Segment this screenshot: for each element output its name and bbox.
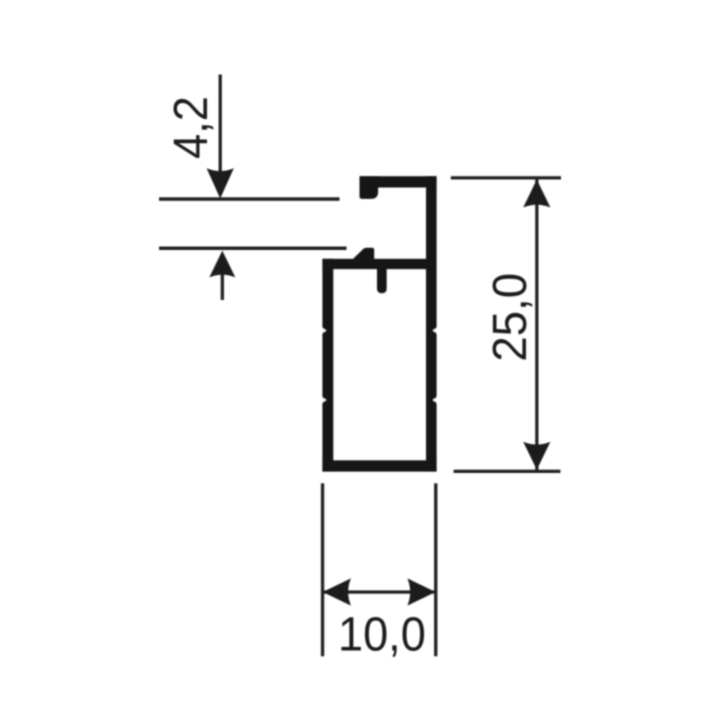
notch left wall lower — [321, 397, 326, 403]
dimension 25,0 line — [535, 179, 538, 470]
profile hook tab — [360, 176, 379, 199]
dimension 10,0 right extension line — [434, 483, 437, 656]
glass pane line upper — [159, 197, 340, 201]
notch right wall upper — [433, 328, 438, 334]
svg-text:10,0: 10,0 — [338, 607, 426, 661]
profile middle bar — [322, 259, 426, 269]
dimension 10,0 line — [324, 590, 434, 593]
profile right wall — [426, 176, 437, 471]
svg-text:4,2: 4,2 — [164, 96, 218, 159]
dimension 4,2 lower arrowhead — [209, 251, 235, 278]
dimension 10,0 right arrowhead — [407, 578, 435, 605]
dimension 25,0 top extension line — [451, 176, 561, 179]
dimension 4,2 upper arrowhead — [207, 168, 234, 198]
profile top bar — [360, 176, 437, 187]
svg-text:25,0: 25,0 — [483, 273, 536, 362]
dimension 4,2 lower arrow stem — [221, 275, 224, 301]
dimension 25,0 bottom extension line — [454, 470, 561, 473]
notch left wall upper — [321, 328, 326, 334]
dimension 25,0 bottom arrowhead — [523, 442, 550, 470]
profile left wall — [322, 259, 333, 472]
notch right wall lower — [433, 397, 438, 403]
dimension 10,0 left arrowhead — [323, 578, 351, 605]
dimension 25,0 top arrowhead — [523, 180, 550, 208]
profile tooth — [377, 268, 387, 293]
glass pane line lower — [159, 247, 347, 251]
dimension 4,2 upper arrow stem — [219, 75, 222, 172]
profile bottom bar — [322, 460, 436, 471]
dimension 10,0 left extension line — [321, 483, 324, 656]
profile retaining bump — [353, 248, 375, 260]
